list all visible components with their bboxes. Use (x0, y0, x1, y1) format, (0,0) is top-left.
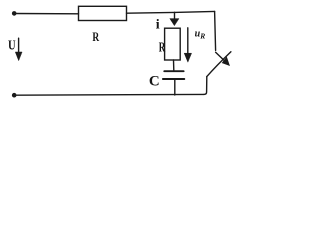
resistor R (branch, vertical box) (165, 28, 181, 60)
capacitor C top plate (164, 70, 183, 72)
terminal node top-left (12, 11, 17, 16)
wire: right side vertical down to switch contact (215, 11, 216, 50)
wire: capacitor to bottom wire (174, 80, 176, 95)
switch S closing-motion arrow (216, 52, 225, 61)
wire: resistor R to branch junction node (127, 11, 175, 14)
switch S blade (207, 52, 231, 77)
wire: bottom-right corner vertical (204, 77, 207, 95)
svg-text:U: U (8, 37, 16, 52)
resistor R (series, horizontal box) (79, 6, 127, 20)
capacitor C bottom plate (163, 78, 184, 80)
current arrow i (174, 12, 176, 19)
wire: branch junction to top-right corner (175, 11, 215, 12)
voltage arrow u_R (187, 28, 189, 54)
svg-text:R: R (199, 32, 205, 41)
svg-text:C: C (149, 73, 160, 89)
terminal node bottom-left (12, 93, 17, 98)
svg-text:R: R (92, 29, 99, 44)
svg-text:i: i (156, 17, 160, 32)
wire: top-left terminal to resistor R (14, 13, 78, 15)
bottom wire (14, 93, 204, 96)
voltage U arrow (18, 38, 20, 52)
svg-text:R: R (159, 40, 166, 55)
wire: branch resistor to capacitor (173, 60, 175, 70)
